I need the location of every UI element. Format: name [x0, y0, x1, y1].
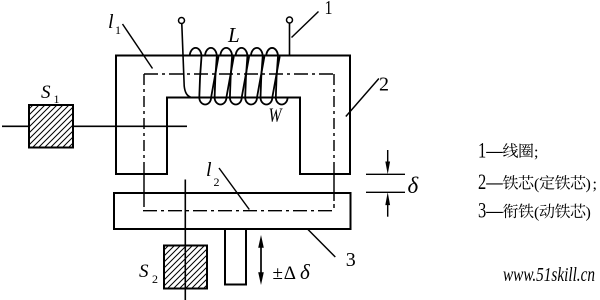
gap dimension arrow lower — [387, 202, 389, 217]
svg-text:;: ; — [534, 144, 538, 161]
iron core 2 (fixed core) outline — [116, 56, 350, 175]
coil L winding: back turn lines — [211, 57, 280, 98]
svg-text:www.51skill.cn: www.51skill.cn — [503, 264, 595, 286]
svg-text:1: 1 — [325, 0, 333, 18]
right coil terminal circle — [287, 17, 293, 23]
armature plate (part 3) — [114, 193, 351, 229]
left coil terminal circle — [179, 18, 185, 24]
movement double arrow — [260, 243, 262, 277]
svg-text:(: ( — [534, 176, 539, 193]
left coil lead wire — [182, 24, 191, 97]
svg-text:1—: 1— — [478, 139, 503, 163]
svg-text:S: S — [41, 82, 51, 103]
svg-text:3—: 3— — [478, 199, 503, 223]
armature centerline (dash-dot) — [143, 210, 334, 212]
link rod to S1 — [2, 125, 187, 127]
svg-text:L: L — [227, 23, 240, 47]
svg-text:l: l — [206, 159, 212, 181]
svg-text:): ) — [586, 176, 591, 193]
svg-text:δ: δ — [408, 173, 419, 198]
svg-text:3: 3 — [346, 249, 356, 271]
svg-text:2: 2 — [152, 272, 158, 286]
svg-text:W: W — [269, 104, 284, 126]
svg-text:S: S — [139, 261, 149, 282]
svg-text:;: ; — [593, 176, 597, 193]
leader line 3 — [308, 230, 335, 258]
armature stem — [225, 229, 246, 285]
svg-text:): ) — [586, 204, 591, 221]
sensor block S1 (hatched) — [29, 105, 73, 148]
leader line 1 — [292, 12, 319, 38]
leader line l1 — [123, 24, 153, 69]
svg-text:1: 1 — [115, 23, 121, 37]
link rod to S2 — [184, 180, 186, 300]
svg-text:2: 2 — [214, 175, 220, 189]
core centerline right vertical (dash-dot) — [333, 74, 335, 162]
leader line l2 — [219, 168, 249, 210]
svg-text:2: 2 — [379, 73, 389, 95]
svg-text:±Δδ: ±Δδ — [273, 260, 312, 284]
legend line 3: armature (moving core) — [478, 199, 591, 223]
coil L winding (part 1): top arcs — [190, 48, 278, 57]
core centerline right vertical solid gap segment — [333, 162, 335, 208]
gap dimension arrow upper — [387, 150, 389, 165]
core centerline horizontal (dash-dot) — [144, 73, 334, 75]
svg-text:l: l — [108, 11, 114, 33]
sensor block S2 (hatched) — [164, 246, 207, 289]
legend line 2: iron core (fixed) — [478, 171, 597, 195]
svg-text:1: 1 — [54, 92, 60, 106]
svg-text:2—: 2— — [478, 171, 503, 195]
coil L winding: front turn lines — [199, 57, 278, 98]
right coil lead wire — [289, 23, 291, 56]
legend line 1: coil — [478, 139, 538, 163]
svg-text:(: ( — [534, 204, 539, 221]
core centerline left vertical solid gap segment — [143, 174, 145, 207]
coil L winding: bottom arcs — [199, 98, 287, 105]
gap dimension extension lines — [366, 174, 405, 192]
leader line 2 — [346, 79, 379, 117]
core centerline left vertical (dash-dot) — [143, 74, 145, 174]
